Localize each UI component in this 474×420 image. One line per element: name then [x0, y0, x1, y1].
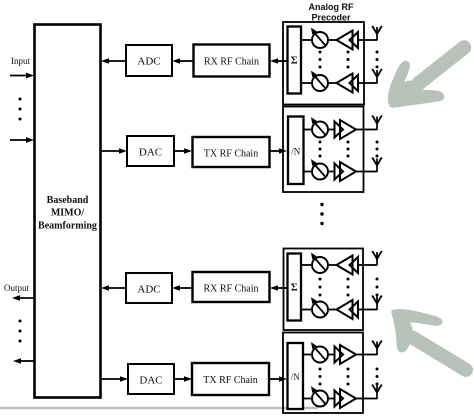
output dots — [19, 320, 22, 323]
output arrow 2 — [19, 360, 35, 362]
box4 row B antenna — [372, 384, 383, 399]
input dots — [19, 98, 22, 101]
box1 row A antenna wire — [364, 39, 377, 41]
svg-text:TX RF Chain: TX RF Chain — [203, 375, 257, 386]
svg-text:Σ: Σ — [291, 56, 298, 67]
box1 row A antenna — [372, 26, 383, 41]
sigma combiner 1 — [288, 27, 302, 94]
box3 row A wire — [301, 264, 312, 266]
box1 row B phase shifter — [311, 71, 328, 91]
RX RF Chain block row1 — [194, 45, 270, 77]
box3 row B wire2 — [328, 309, 337, 311]
DAC block row4 — [128, 364, 174, 394]
box2 row A wire — [304, 129, 313, 131]
svg-text:RX RF Chain: RX RF Chain — [204, 57, 259, 68]
box3 row B phase shifter — [311, 297, 328, 317]
box4 row B wire2 — [328, 398, 335, 400]
box1 row B amplifier — [337, 74, 359, 93]
wire precoder to RX1 — [276, 60, 288, 62]
wire TX1 to precoder — [270, 150, 281, 152]
box1 row B wire3 — [358, 82, 365, 84]
scan artifact line bottom — [0, 407, 318, 409]
box3 row A phase shifter — [311, 253, 328, 273]
precoder box 1 (RX combiner) — [283, 22, 364, 105]
box3 row B antenna — [372, 295, 383, 310]
box2 dots — [319, 141, 379, 158]
box2 row A wire3 — [356, 129, 364, 131]
svg-text:RX RF Chain: RX RF Chain — [203, 284, 258, 295]
box2 row A antenna wire — [364, 129, 378, 131]
box2 row B wire2 — [328, 171, 335, 173]
box3 row A antenna wire — [363, 264, 377, 266]
ADC block row1 — [126, 45, 172, 76]
dots between precoder groups — [320, 203, 323, 225]
box4 row A antenna — [372, 340, 383, 355]
box3 row B wire3 — [358, 309, 364, 311]
box4 row A phase shifter — [311, 342, 328, 362]
svg-text:Σ: Σ — [291, 283, 298, 294]
box4 row A wire3 — [356, 354, 363, 356]
box2 row B wire — [304, 171, 313, 173]
precoder box 2 (TX splitter) — [283, 107, 364, 193]
box1 row B antenna wire — [364, 82, 377, 84]
svg-text:ADC: ADC — [137, 56, 160, 68]
box4 row B phase shifter — [311, 386, 328, 406]
green arrow top (points down-left) — [388, 48, 464, 108]
svg-text:/N: /N — [291, 372, 301, 382]
box4 row B amplifier — [335, 389, 357, 408]
svg-text:TX RF Chain: TX RF Chain — [204, 149, 258, 160]
svg-text:Precoder: Precoder — [311, 13, 351, 23]
wire DAC2 to TX2 — [174, 378, 186, 380]
box1 row A wire2 — [328, 39, 337, 41]
wire RX1 to ADC1 — [178, 60, 193, 62]
box4 dots — [319, 368, 379, 386]
svg-text:DAC: DAC — [139, 375, 162, 387]
svg-text:Baseband: Baseband — [47, 195, 89, 206]
wire DAC1 to TX1 — [174, 150, 186, 152]
sigma combiner 2 — [288, 254, 302, 321]
svg-text:ADC: ADC — [137, 284, 160, 296]
box2 row A antenna — [372, 115, 383, 130]
box3 row B antenna wire — [363, 309, 377, 311]
box1 row B antenna — [372, 69, 383, 84]
box1 row A wire3 — [358, 39, 365, 41]
output arrow 1 — [18, 297, 34, 299]
svg-text:Analog RF: Analog RF — [309, 2, 354, 12]
TX RF Chain block row2 — [193, 137, 270, 167]
wire precoder to RX2 — [276, 287, 288, 289]
box4 row B antenna wire — [363, 398, 377, 400]
wire ADC1 to baseband — [107, 60, 126, 62]
DAC block row2 — [127, 136, 174, 166]
box2 row B antenna — [372, 157, 383, 172]
box4 row A wire — [303, 354, 312, 356]
box1 row B wire — [301, 82, 312, 84]
input arrow 1 — [10, 75, 28, 77]
wire baseband to DAC2 — [101, 378, 122, 380]
box3 row B wire — [301, 309, 312, 311]
box2 row A wire2 — [328, 129, 335, 131]
RX RF Chain block row3 — [193, 272, 270, 302]
box4 row A antenna wire — [363, 354, 377, 356]
box2 row B amplifier — [335, 162, 357, 181]
wire TX2 to precoder — [269, 378, 281, 380]
box3 row B amplifier — [337, 300, 359, 319]
box1 row B wire2 — [328, 82, 337, 84]
svg-text:MIMO/: MIMO/ — [51, 208, 85, 219]
input arrow 2 — [10, 139, 28, 141]
box2 row B phase shifter — [311, 159, 328, 179]
svg-text:Output: Output — [4, 283, 30, 293]
svg-text:Input: Input — [11, 56, 30, 66]
box2 row B antenna wire — [364, 171, 378, 173]
svg-text:DAC: DAC — [139, 147, 162, 159]
baseband MIMO/beamforming block — [35, 25, 101, 398]
ADC block row3 — [126, 273, 172, 303]
box2 row A phase shifter — [311, 117, 328, 137]
box3 dots — [319, 278, 379, 297]
box4 row A wire2 — [328, 354, 335, 356]
box1 row A phase shifter — [311, 28, 328, 48]
box1 dots — [319, 51, 379, 69]
box3 row A wire2 — [328, 264, 337, 266]
box4 row A amplifier — [335, 345, 357, 364]
box4 row B wire — [303, 398, 312, 400]
TX RF Chain block row4 — [192, 363, 269, 395]
box2 row B wire3 — [356, 171, 364, 173]
splitter /N 2 — [288, 343, 304, 409]
wire RX2 to ADC2 — [178, 287, 192, 289]
box4 row B wire3 — [356, 398, 363, 400]
wire ADC2 to baseband — [107, 287, 126, 289]
splitter /N 1 — [288, 117, 304, 185]
precoder box 4 (TX splitter) — [283, 333, 363, 414]
box3 row A antenna — [372, 251, 383, 266]
box3 row A wire3 — [358, 264, 364, 266]
box1 row A wire — [301, 39, 312, 41]
box1 row A amplifier — [337, 31, 359, 50]
box3 row A amplifier — [337, 256, 359, 275]
box2 row A amplifier — [335, 120, 357, 139]
svg-text:Beamforming: Beamforming — [38, 221, 97, 232]
wire baseband to DAC1 — [101, 150, 121, 152]
precoder box 3 (RX combiner) — [284, 249, 364, 331]
green arrow bottom (points up-left) — [391, 309, 466, 370]
svg-text:/N: /N — [291, 147, 301, 157]
